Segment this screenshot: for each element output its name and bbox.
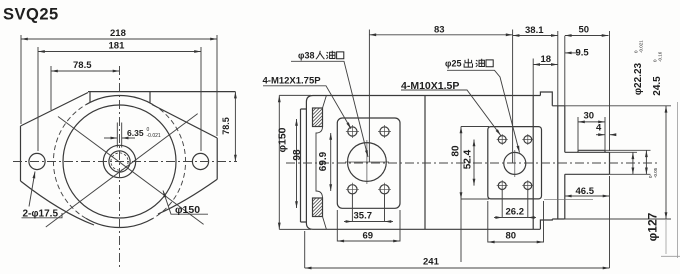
hole crosshairs <box>345 125 533 196</box>
dim 38.1 <box>513 35 558 37</box>
svg-text:78.5: 78.5 <box>73 60 92 71</box>
dim phi22.23 <box>632 152 634 174</box>
inlet bolt holes M12 <box>348 127 357 136</box>
body outline <box>306 96 540 230</box>
svg-text:6.35: 6.35 <box>127 128 144 138</box>
hand-drawn glyphs: ru you kou <box>316 51 344 59</box>
svg-text:26.2: 26.2 <box>506 207 525 218</box>
svg-text:35.7: 35.7 <box>354 211 373 222</box>
cover neck profile <box>316 96 326 229</box>
svg-text:98: 98 <box>292 149 303 161</box>
body parting line 2 / rear cover joint <box>532 96 534 230</box>
svg-text:4-M10X1.5P: 4-M10X1.5P <box>401 80 459 92</box>
front view: right mounting ear <box>152 105 217 215</box>
port center extension lines <box>369 30 512 164</box>
dim 83 <box>369 34 512 36</box>
svg-text:80: 80 <box>506 231 517 242</box>
dim 9.5 arrow <box>565 52 579 54</box>
dim 30 <box>578 121 605 123</box>
inlet flange plate <box>337 118 400 208</box>
dim 218 <box>21 38 217 40</box>
svg-text:φ22.23: φ22.23 <box>633 62 644 95</box>
front view: shaft dashed circle <box>111 153 128 170</box>
svg-text:30: 30 <box>584 111 595 122</box>
svg-text:18: 18 <box>541 54 552 65</box>
svg-text:-0.021: -0.021 <box>639 40 644 53</box>
hand-drawn glyphs: chu you kou <box>464 59 493 68</box>
svg-text:φ38: φ38 <box>298 51 314 61</box>
ext lines spigot/hub faces <box>558 31 610 151</box>
scan border bottom right <box>661 255 680 257</box>
svg-text:24.5: 24.5 <box>652 76 663 96</box>
dim 18 <box>533 64 558 66</box>
right top step <box>540 92 552 106</box>
rotated dim texts <box>277 62 664 241</box>
leader phi38 inlet <box>291 61 368 157</box>
dim phi150 vertical left <box>278 95 280 229</box>
svg-text:69: 69 <box>363 231 374 242</box>
front view: shaft outer circle <box>103 145 135 177</box>
front view: left mounting ear <box>21 93 95 226</box>
svg-text:4: 4 <box>596 123 602 134</box>
svg-text:83: 83 <box>434 25 445 36</box>
side view centerline <box>286 162 658 164</box>
svg-text:-0.16: -0.16 <box>658 51 663 62</box>
leader phi25 outlet <box>447 70 520 152</box>
svg-text:φ150: φ150 <box>277 127 289 152</box>
outlet bolt holes M10 <box>498 136 506 144</box>
dim 69 <box>337 240 400 242</box>
dim 35.7 <box>352 221 384 223</box>
front view dim texts <box>23 28 232 220</box>
svg-text:241: 241 <box>423 257 440 268</box>
front view: X diagonal lines <box>46 114 204 227</box>
rotated tolerance texts <box>634 40 663 178</box>
svg-text:80: 80 <box>451 145 462 157</box>
faint dim line tail <box>665 219 667 254</box>
spigot extension lines right <box>565 106 671 219</box>
svg-text:181: 181 <box>109 41 126 52</box>
svg-text:52.4: 52.4 <box>463 149 474 169</box>
dim 241 <box>305 267 610 269</box>
svg-text:38.1: 38.1 <box>525 25 544 36</box>
svg-text:-0.05: -0.05 <box>653 167 658 178</box>
dim 78.5 right vertical <box>234 92 236 162</box>
front view: outer body solid bottom arc <box>86 218 153 227</box>
scan artifact line near shaft <box>544 198 593 200</box>
dim 6.35 arrows <box>104 137 117 139</box>
dim 78.5 top <box>51 70 120 72</box>
svg-text:φ150: φ150 <box>175 204 200 216</box>
dim 69.9 <box>330 133 332 191</box>
scan border right <box>676 102 678 258</box>
front view: inner circle <box>63 105 176 218</box>
side view dim texts <box>354 25 603 268</box>
lug hatching <box>313 108 323 217</box>
svg-text:9.5: 9.5 <box>576 48 590 59</box>
leader 4-M10X1.5P <box>401 90 501 136</box>
outlet port circle phi25 <box>504 152 526 174</box>
dim 98 <box>296 119 298 208</box>
mounting lug bottom (section) <box>313 198 323 217</box>
svg-text:φ127: φ127 <box>646 212 660 241</box>
dim 26.2 <box>502 217 528 219</box>
dim 4 arrows <box>596 134 605 136</box>
shaft key <box>578 150 605 152</box>
leader 4-M12X1.75P <box>263 86 351 129</box>
svg-text:2-φ17.5: 2-φ17.5 <box>23 209 59 220</box>
leader phi150 <box>163 191 208 215</box>
svg-text:78.5: 78.5 <box>221 117 231 135</box>
spigot phi127 <box>552 106 565 219</box>
mounting lug top (section) <box>313 108 323 127</box>
shaft <box>565 152 610 174</box>
svg-text:69.9: 69.9 <box>318 151 329 171</box>
dim phi127 <box>665 106 667 219</box>
svg-text:-0.021: -0.021 <box>147 133 161 139</box>
svg-text:46.5: 46.5 <box>576 186 595 197</box>
outlet flange plate <box>488 127 542 199</box>
front view: right ear hole 17.5 <box>192 153 208 169</box>
front view: top boss <box>88 92 235 103</box>
front view: outer body circle phi150 dashed <box>153 105 186 219</box>
front view: outer body solid top arc <box>86 95 153 104</box>
leader 2-phi17.5 <box>29 172 35 207</box>
svg-text:SVQ25: SVQ25 <box>3 6 59 24</box>
dim 52.4 <box>473 140 475 186</box>
body parting line 1 <box>424 96 426 230</box>
front cover plate <box>301 109 307 222</box>
dim 80 bottom <box>488 241 544 243</box>
dim 24.5 <box>645 150 647 174</box>
right bottom step <box>540 219 552 229</box>
tolerance of 6.35 <box>147 127 161 139</box>
dim 181 <box>38 51 201 53</box>
front view: key slot lines <box>117 123 121 148</box>
dim 46.5 <box>565 195 610 197</box>
dim 80 vertical (outlet plate) <box>460 127 462 200</box>
front view: left ear hole 17.5 <box>29 153 45 169</box>
svg-text:50: 50 <box>579 25 590 36</box>
front view: shaft inner circle <box>109 151 130 172</box>
inlet port circle phi38 <box>348 143 387 182</box>
svg-text:4-M12X1.75P: 4-M12X1.75P <box>263 76 322 87</box>
svg-text:218: 218 <box>110 28 126 39</box>
shaft extension lines right <box>605 150 651 174</box>
front view: centerlines <box>13 66 237 268</box>
dim 50 <box>565 35 609 37</box>
svg-text:φ25: φ25 <box>445 59 461 69</box>
